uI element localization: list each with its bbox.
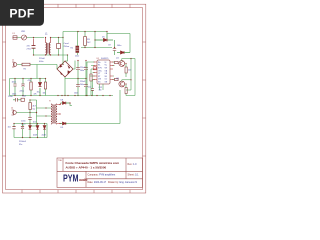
svg-text:Drawn by: Eng. Jameson N: Drawn by: Eng. Jameson N [108,181,137,184]
svg-text:4148: 4148 [33,135,37,137]
svg-text:200v: 200v [80,70,84,72]
diode D9 [61,122,67,129]
diode D10 [29,124,32,138]
resistor R1 [17,63,57,70]
resistor R4 [28,79,33,96]
svg-text:SG3525: SG3525 [101,58,109,60]
node dots output [69,102,70,103]
node dots caps [77,60,86,96]
sheet frame [3,4,147,193]
wire cap midpoint [78,78,86,80]
node dots drivers [125,58,131,85]
capacitor C9 [108,40,122,55]
wire startup cluster top [10,65,46,96]
varistor RV1 [21,31,27,40]
svg-text:IN-: IN- [98,65,101,67]
svg-text:250v: 250v [75,56,79,58]
svg-text:Sheet: 1/1: Sheet: 1/1 [128,174,140,177]
svg-text:100n: 100n [74,93,78,95]
resistor R8 [115,78,119,80]
svg-text:220uF: 220uF [80,81,86,83]
svg-text:TSE: TSE [58,160,63,162]
capacitor C2 [57,38,61,55]
capacitor C4 [12,79,37,96]
svg-text:Company: PYM amplifiers: Company: PYM amplifiers [88,173,116,176]
capacitor C11 [88,85,94,96]
svg-text:PYM: PYM [63,174,79,185]
node dots startup [14,78,46,79]
svg-text:220uF: 220uF [39,58,46,60]
svg-text:PDF: PDF [9,7,34,21]
wire right rails [126,59,135,96]
svg-text:Date: 2024-06-17: Date: 2024-06-17 [88,181,107,184]
svg-text:10n: 10n [99,90,102,92]
label 2200uF 35v [19,141,27,146]
diode D12 [42,124,46,138]
capacitor C3 [12,79,17,96]
wire second bus [81,47,112,49]
label 250vac [64,43,71,48]
resistor R7 [115,61,119,63]
capacitor C8 electrolytic [84,79,88,96]
resistor R12 snubber [29,100,37,113]
wire main ground bus [10,95,114,97]
svg-text:10k: 10k [43,93,46,95]
wire secondary stubs [57,103,61,124]
diode D11 [33,124,39,138]
diode D8 [61,100,71,105]
wire drop to bus2 [94,32,96,48]
capacitor C1 [27,39,36,56]
resistor R11 [21,98,24,101]
resistor R10 [125,84,127,96]
resistor R9 [125,64,131,78]
inductor L1 common-mode choke [45,34,51,55]
wire AC return bottom [34,54,68,56]
diode D5 [95,34,113,42]
svg-text:IN+: IN+ [98,62,101,64]
capacitor C13 snubber [21,113,37,127]
wire choke leads [46,38,51,56]
resistor R6 [90,74,92,96]
capacitor C7 electrolytic [84,61,88,79]
svg-text:Tr: Tr [49,100,51,103]
wire U1 bottom pins [100,84,104,90]
svg-text:200v: 200v [80,84,84,86]
bridge rectifier B1 [57,61,73,77]
resistor R5 [43,79,47,96]
svg-text:10n: 10n [8,127,11,129]
diode D6 [117,51,130,54]
capacitor C10 [8,96,27,102]
diode D4 zener [37,79,42,96]
wire choke out to top bus [51,32,131,38]
svg-text:R2: R2 [71,48,73,50]
wire U1 to drivers [113,62,115,80]
PDF badge [0,0,44,26]
wire bridge connections [57,38,78,96]
node dots output filter [13,123,45,138]
svg-text:2200uF: 2200uF [19,141,27,143]
wire driver collectors [122,59,135,82]
wire output filter ground rail [14,137,47,139]
node dots ground bus [14,95,110,96]
capacitor C14 [8,124,16,138]
wire U1 left connections [87,62,94,96]
transformer T1 [49,100,57,125]
svg-text:Rev: 1.0: Rev: 1.0 [128,163,138,166]
wire output filter top rail [14,124,47,138]
svg-text:47k: 47k [34,93,37,95]
title block [57,158,143,187]
fuse F1 [13,33,18,39]
wire output loop [67,90,121,124]
pin stubs U1 [94,62,113,80]
wire aux drop [129,34,131,53]
connector J1 [12,60,17,68]
svg-text:4148: 4148 [42,135,46,137]
transistor Q1 [116,58,125,67]
capacitor C15 electrolytic [21,124,24,138]
wire primary feed [16,112,36,114]
wire snubber rail [23,100,51,126]
node junctions on AC lines [33,37,68,65]
resistor R3 [84,32,91,48]
svg-text:100n: 100n [12,93,16,95]
svg-text:AUDIO + AP440 - 1 x 50/3500: AUDIO + AP440 - 1 x 50/3500 [66,166,107,170]
capacitor C6 electrolytic [74,79,86,96]
svg-text:audio: audio [79,178,88,182]
label 220u400v [39,58,46,63]
capacitor C5 electrolytic [76,61,86,79]
net label box [93,67,96,70]
pin name text U1 [98,62,108,84]
transistor Q2 [116,78,125,87]
svg-text:C12: C12 [99,87,102,89]
svg-text:250va: 250va [64,46,71,48]
op-amp U1 PWM controller [97,58,111,84]
svg-text:Cond: Cond [64,43,70,45]
svg-text:2n2: 2n2 [88,87,91,89]
resistor R2 fusible [71,32,80,58]
svg-text:220: 220 [128,70,131,72]
wire AC line top [17,37,44,39]
connector J2 [11,108,16,116]
node dots primary [29,99,37,126]
node dots top bus [77,31,115,48]
